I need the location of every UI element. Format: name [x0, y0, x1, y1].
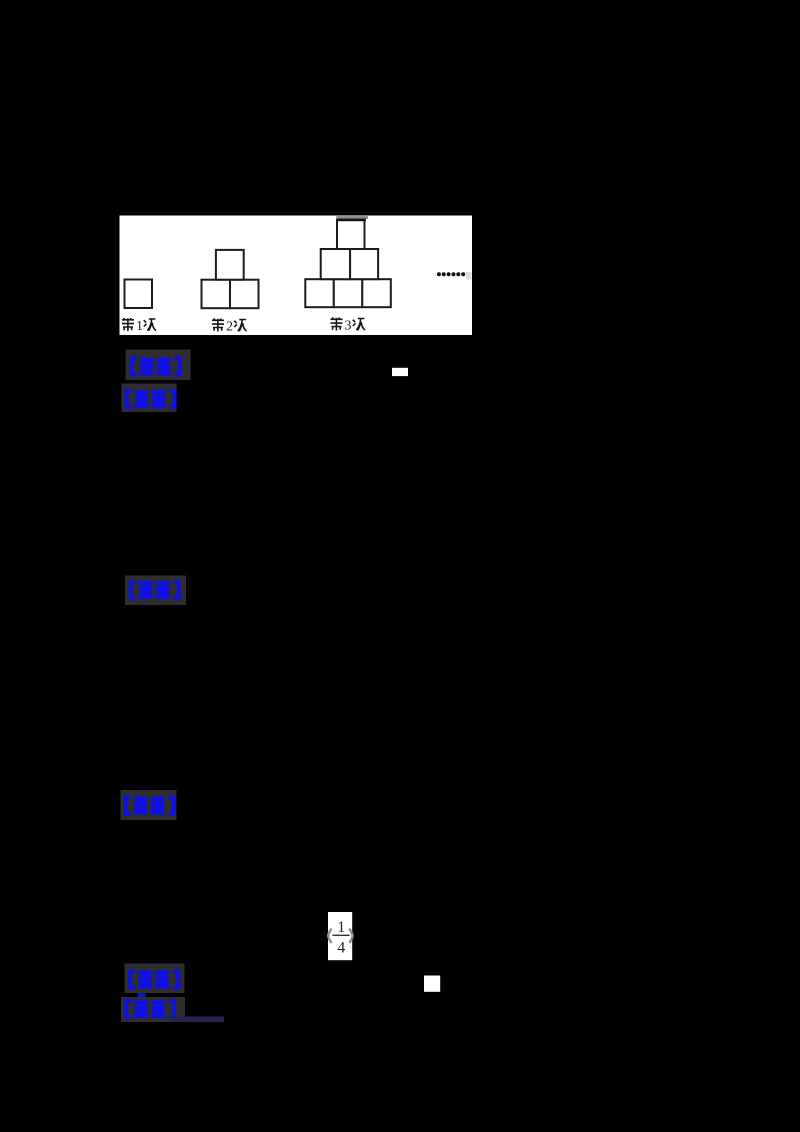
label 【点评】	[121, 790, 177, 820]
label 【考点】 #2	[125, 964, 185, 994]
figure: white panel with square pyramids	[120, 216, 473, 336]
caption 第3次	[331, 318, 343, 331]
label 【考点】 #1	[126, 350, 191, 381]
svg-text:3: 3	[345, 319, 352, 334]
ellipsis dots	[437, 272, 465, 276]
small white answer slot	[392, 368, 408, 376]
caption 第1次	[122, 318, 134, 331]
svg-text:4: 4	[337, 940, 345, 957]
2nd pyramid	[202, 280, 231, 309]
caption 第2次	[212, 319, 224, 332]
label 【解答】	[125, 576, 186, 606]
label 【专题】 + link underline	[121, 997, 185, 1022]
grey parens straddling field edge	[328, 929, 331, 944]
svg-text:1: 1	[136, 319, 143, 334]
label 【分析】	[122, 384, 177, 413]
fraction (1/4) white field	[328, 912, 352, 960]
3rd pyramid	[305, 279, 334, 307]
white answer square	[424, 976, 440, 992]
thick top bar over top square	[336, 216, 368, 219]
svg-text:2: 2	[226, 320, 233, 335]
1st pyramid: single square	[125, 280, 153, 309]
svg-text:1: 1	[337, 919, 345, 936]
